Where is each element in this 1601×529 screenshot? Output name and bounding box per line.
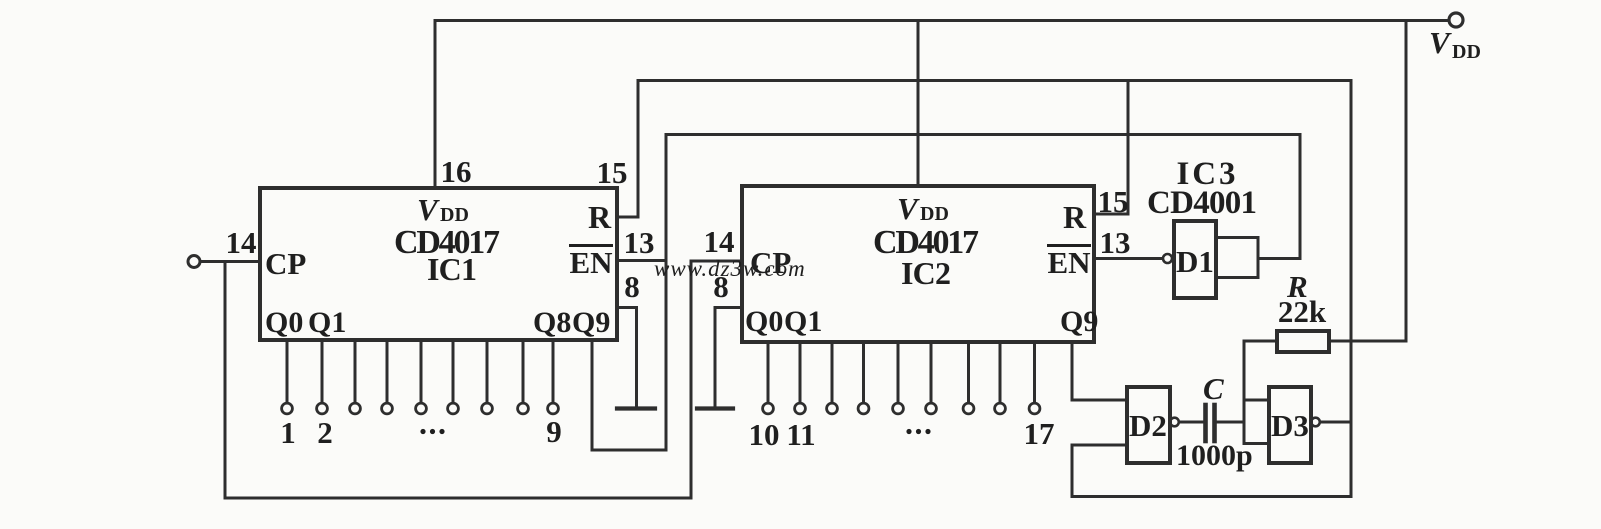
IC1 output pin 6 <box>452 342 455 403</box>
IC1 output pin 4 <box>386 342 389 403</box>
svg-text:11: 11 <box>786 417 815 452</box>
svg-text:13: 13 <box>624 225 655 260</box>
IC2 output pin 15 <box>930 344 933 403</box>
svg-text:IC2: IC2 <box>901 255 951 291</box>
svg-text:IC1: IC1 <box>427 251 477 287</box>
wire clock input to IC1 CP <box>200 260 260 263</box>
IC2 output pin 18 <box>1033 344 1036 403</box>
ground bar IC1 pin8 <box>617 406 655 410</box>
IC1 output pin 2 <box>321 342 324 403</box>
gate D1 body <box>1174 221 1216 298</box>
IC2 output pin 16 <box>967 344 970 403</box>
IC2 output pin 17 <box>999 344 1002 403</box>
wire IC2 CP pin14 stub <box>691 260 742 263</box>
overline IC1 EN <box>569 244 613 247</box>
svg-text:DD: DD <box>920 203 949 225</box>
wire IC1 Q9 stub down <box>591 340 594 450</box>
IC1 output pin 7 <box>486 342 489 403</box>
svg-text:8: 8 <box>624 269 640 304</box>
svg-text:www.dz3w.com: www.dz3w.com <box>654 256 806 281</box>
svg-text:9: 9 <box>546 414 562 449</box>
wire IC1 EN pin13 <box>617 259 666 262</box>
svg-text:CP: CP <box>265 246 306 281</box>
svg-text:CD4001: CD4001 <box>1147 185 1257 221</box>
IC2 output pin 13 <box>862 344 865 403</box>
svg-text:V: V <box>1429 25 1452 60</box>
IC1 output pin 9 <box>552 342 555 403</box>
wire IC2 pin15 stub <box>1094 81 1128 215</box>
wire clock junction down <box>224 262 227 499</box>
wire D3 output <box>1320 421 1351 424</box>
IC1 output pin 8 <box>522 342 525 403</box>
svg-text:EN: EN <box>570 245 613 280</box>
svg-text:16: 16 <box>441 154 472 189</box>
IC2 output pin 14 <box>897 344 900 403</box>
IC1 CD4017 body <box>260 188 617 340</box>
overline IC2 EN <box>1047 244 1091 247</box>
svg-text:R: R <box>588 199 612 235</box>
gate D3 body <box>1269 387 1311 463</box>
svg-text:10: 10 <box>749 417 780 452</box>
wire clock bottom run <box>225 497 691 500</box>
wire IC1 Q9 to EN node <box>592 449 666 452</box>
wire D3 input bottom stub <box>1244 442 1269 445</box>
svg-text:17: 17 <box>1024 416 1055 451</box>
wire D1 output bracket <box>1216 238 1258 278</box>
wire D2 bottom input down <box>1071 445 1074 497</box>
svg-text:15: 15 <box>1098 184 1129 219</box>
IC1 output pin 3 <box>354 342 357 403</box>
capacitor C plate right <box>1212 405 1217 441</box>
svg-text:R: R <box>1063 199 1087 235</box>
svg-text:15: 15 <box>597 155 628 190</box>
VDD terminal <box>1449 13 1463 27</box>
svg-text:DD: DD <box>1452 41 1481 63</box>
wire resistor R left lead <box>1244 340 1277 343</box>
wire D2 output to capacitor <box>1179 421 1203 424</box>
wire reset line R horizontal <box>638 79 1351 82</box>
capacitor C plate left <box>1203 405 1208 441</box>
svg-text:Q9: Q9 <box>572 306 610 339</box>
svg-text:13: 13 <box>1100 225 1131 260</box>
label outputs ellipsis IC2 <box>906 429 911 434</box>
wire reset line down right side <box>1350 81 1353 497</box>
IC2 output pin 12 <box>831 344 834 403</box>
svg-text:22k: 22k <box>1278 294 1327 329</box>
svg-text:DD: DD <box>440 204 469 226</box>
node input terminal <box>188 256 200 268</box>
resistor R body <box>1277 331 1329 352</box>
svg-text:D2: D2 <box>1129 408 1167 443</box>
gate D3 output bubble <box>1311 418 1320 427</box>
wire D1 output to vertical <box>1258 257 1300 260</box>
svg-text:Q0: Q0 <box>745 305 783 338</box>
svg-text:1000p: 1000p <box>1176 439 1253 472</box>
svg-text:Q8: Q8 <box>533 306 571 339</box>
gate D1 input bubble <box>1163 254 1172 263</box>
gate D2 output bubble <box>1170 418 1179 427</box>
svg-text:Q9: Q9 <box>1060 305 1098 338</box>
IC2 output pin 11 <box>799 344 802 403</box>
svg-text:Q1: Q1 <box>784 305 822 338</box>
IC1 output pin 1 <box>286 342 289 403</box>
svg-text:2: 2 <box>317 415 333 450</box>
svg-text:D3: D3 <box>1271 408 1309 443</box>
svg-text:V: V <box>417 192 440 227</box>
gate D2 body <box>1127 387 1170 463</box>
svg-text:14: 14 <box>704 224 735 259</box>
wire RC node vertical <box>1243 341 1246 444</box>
svg-text:D1: D1 <box>1176 244 1214 279</box>
wire resistor R right lead <box>1329 340 1406 343</box>
wire D2 input bottom stub <box>1072 444 1127 447</box>
wire IC2 pin16 to VDD rail <box>917 21 920 187</box>
svg-text:EN: EN <box>1048 245 1091 280</box>
wire D1 output up to feedback line <box>1299 135 1302 259</box>
wire IC2 EN pin13 to D1 input <box>1094 257 1162 260</box>
svg-text:14: 14 <box>226 225 257 260</box>
wire IC2 pin8 to ground <box>715 308 742 407</box>
wire IC1 pin8 to ground <box>617 308 637 407</box>
wire D3 input top stub <box>1244 399 1269 402</box>
wire bottom feedback run <box>1072 495 1351 498</box>
svg-text:Q0: Q0 <box>265 306 303 339</box>
wire EN feedback line horizontal <box>666 133 1300 136</box>
IC1 output pin 5 <box>420 342 423 403</box>
wire VDD rail down to resistor R right <box>1405 21 1408 342</box>
wire vertical EN/Q9 node <box>665 135 668 451</box>
wire IC1 pin16 to VDD rail <box>434 21 437 189</box>
ground bar IC2 pin8 <box>697 406 733 410</box>
wire IC2 Q9 stub down <box>1071 342 1074 400</box>
wire clock up to IC2 CP <box>690 261 693 498</box>
svg-text:C: C <box>1203 371 1224 406</box>
IC2 CD4017 body <box>742 186 1094 342</box>
wire IC1 pin15 stub <box>617 81 638 218</box>
svg-text:V: V <box>897 191 920 226</box>
IC2 output pin 10 <box>767 344 770 403</box>
label outputs ellipsis IC1 <box>420 429 425 434</box>
wire capacitor to RC node <box>1217 421 1244 424</box>
svg-text:1: 1 <box>280 415 296 450</box>
VDD rail wire <box>435 19 1448 22</box>
svg-text:Q1: Q1 <box>308 306 346 339</box>
wire IC2 Q9 to D2 input top <box>1072 399 1127 402</box>
